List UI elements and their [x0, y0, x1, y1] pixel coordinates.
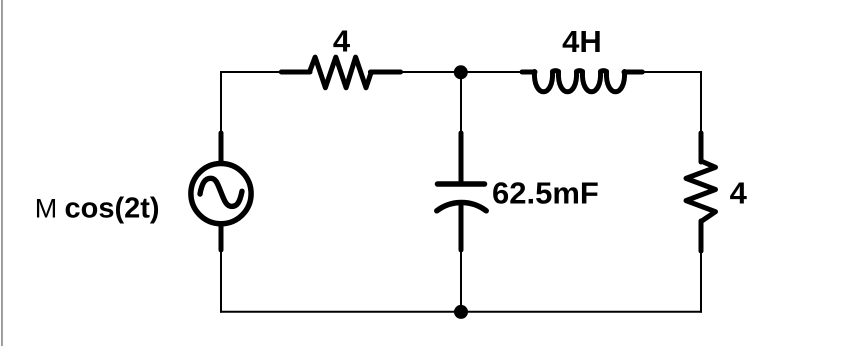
wire top-middle horizontal	[368, 71, 536, 73]
resistor R1 (top, value 4)	[281, 57, 400, 88]
wire bottom horizontal	[220, 311, 702, 313]
capacitor C1 (value 62.5mF)	[437, 133, 486, 250]
AC voltage source V1	[191, 133, 251, 250]
wire middle vertical upper	[460, 72, 462, 183]
svg-text:4H: 4H	[562, 24, 602, 59]
node junction bottom	[454, 305, 468, 319]
left page divider line	[1, 0, 3, 346]
svg-text:Mcos(2t): Mcos(2t)	[35, 192, 160, 224]
wire middle vertical lower	[460, 203, 462, 312]
node junction top	[454, 65, 468, 79]
svg-text:62.5mF: 62.5mF	[492, 175, 599, 210]
wire right vertical lower	[700, 220, 702, 313]
svg-text:4: 4	[730, 175, 748, 210]
wire top-left horizontal	[221, 71, 312, 73]
inductor L1 (value 4H)	[522, 71, 642, 92]
svg-text:4: 4	[333, 23, 351, 58]
wire left vertical upper	[220, 71, 222, 163]
resistor R2 (right, value 4)	[686, 133, 716, 251]
wire top-right horizontal	[623, 71, 702, 73]
wire right vertical upper	[700, 71, 702, 162]
wire left vertical lower	[220, 224, 222, 313]
